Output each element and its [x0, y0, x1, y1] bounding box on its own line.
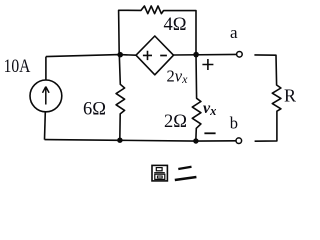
svg-text:2Ω: 2Ω: [164, 112, 187, 132]
minus sign inside diamond: [160, 55, 167, 57]
terminal b open circle: [236, 138, 242, 144]
arrow of current source: [43, 87, 50, 105]
wire mid left: [46, 55, 136, 57]
svg-text:4Ω: 4Ω: [164, 15, 187, 35]
junction node dot top left: [117, 52, 123, 58]
svg-text:vx: vx: [203, 100, 216, 118]
svg-text:R: R: [284, 86, 296, 106]
wire mid right to node a: [174, 53, 237, 56]
caption glyph er (two): [175, 167, 197, 180]
caption glyph tu (figure): [152, 165, 167, 181]
plus polarity mark of vx: [202, 59, 213, 70]
wire top loop with resistor 4ohm: [119, 6, 196, 54]
junction node dot bottom right: [193, 138, 198, 143]
junction node dot top right: [193, 52, 199, 58]
svg-text:6Ω: 6Ω: [83, 99, 106, 119]
resistor R3 2ohm branch: [192, 55, 201, 142]
terminal a open circle: [237, 52, 243, 58]
minus polarity mark of vx: [204, 132, 215, 134]
svg-text:10A: 10A: [4, 57, 31, 77]
resistor R load branch: [254, 55, 281, 141]
junction node dot bottom left: [117, 138, 122, 143]
dependent source U1 diamond 2vx: [136, 36, 174, 75]
svg-text:b: b: [230, 114, 238, 133]
svg-text:2vx: 2vx: [167, 66, 189, 86]
resistor R2 6ohm branch: [116, 55, 125, 141]
wire bottom: [45, 140, 236, 142]
svg-text:a: a: [230, 23, 238, 42]
plus sign inside diamond: [143, 51, 152, 60]
current source I1 10A circle: [45, 57, 47, 80]
